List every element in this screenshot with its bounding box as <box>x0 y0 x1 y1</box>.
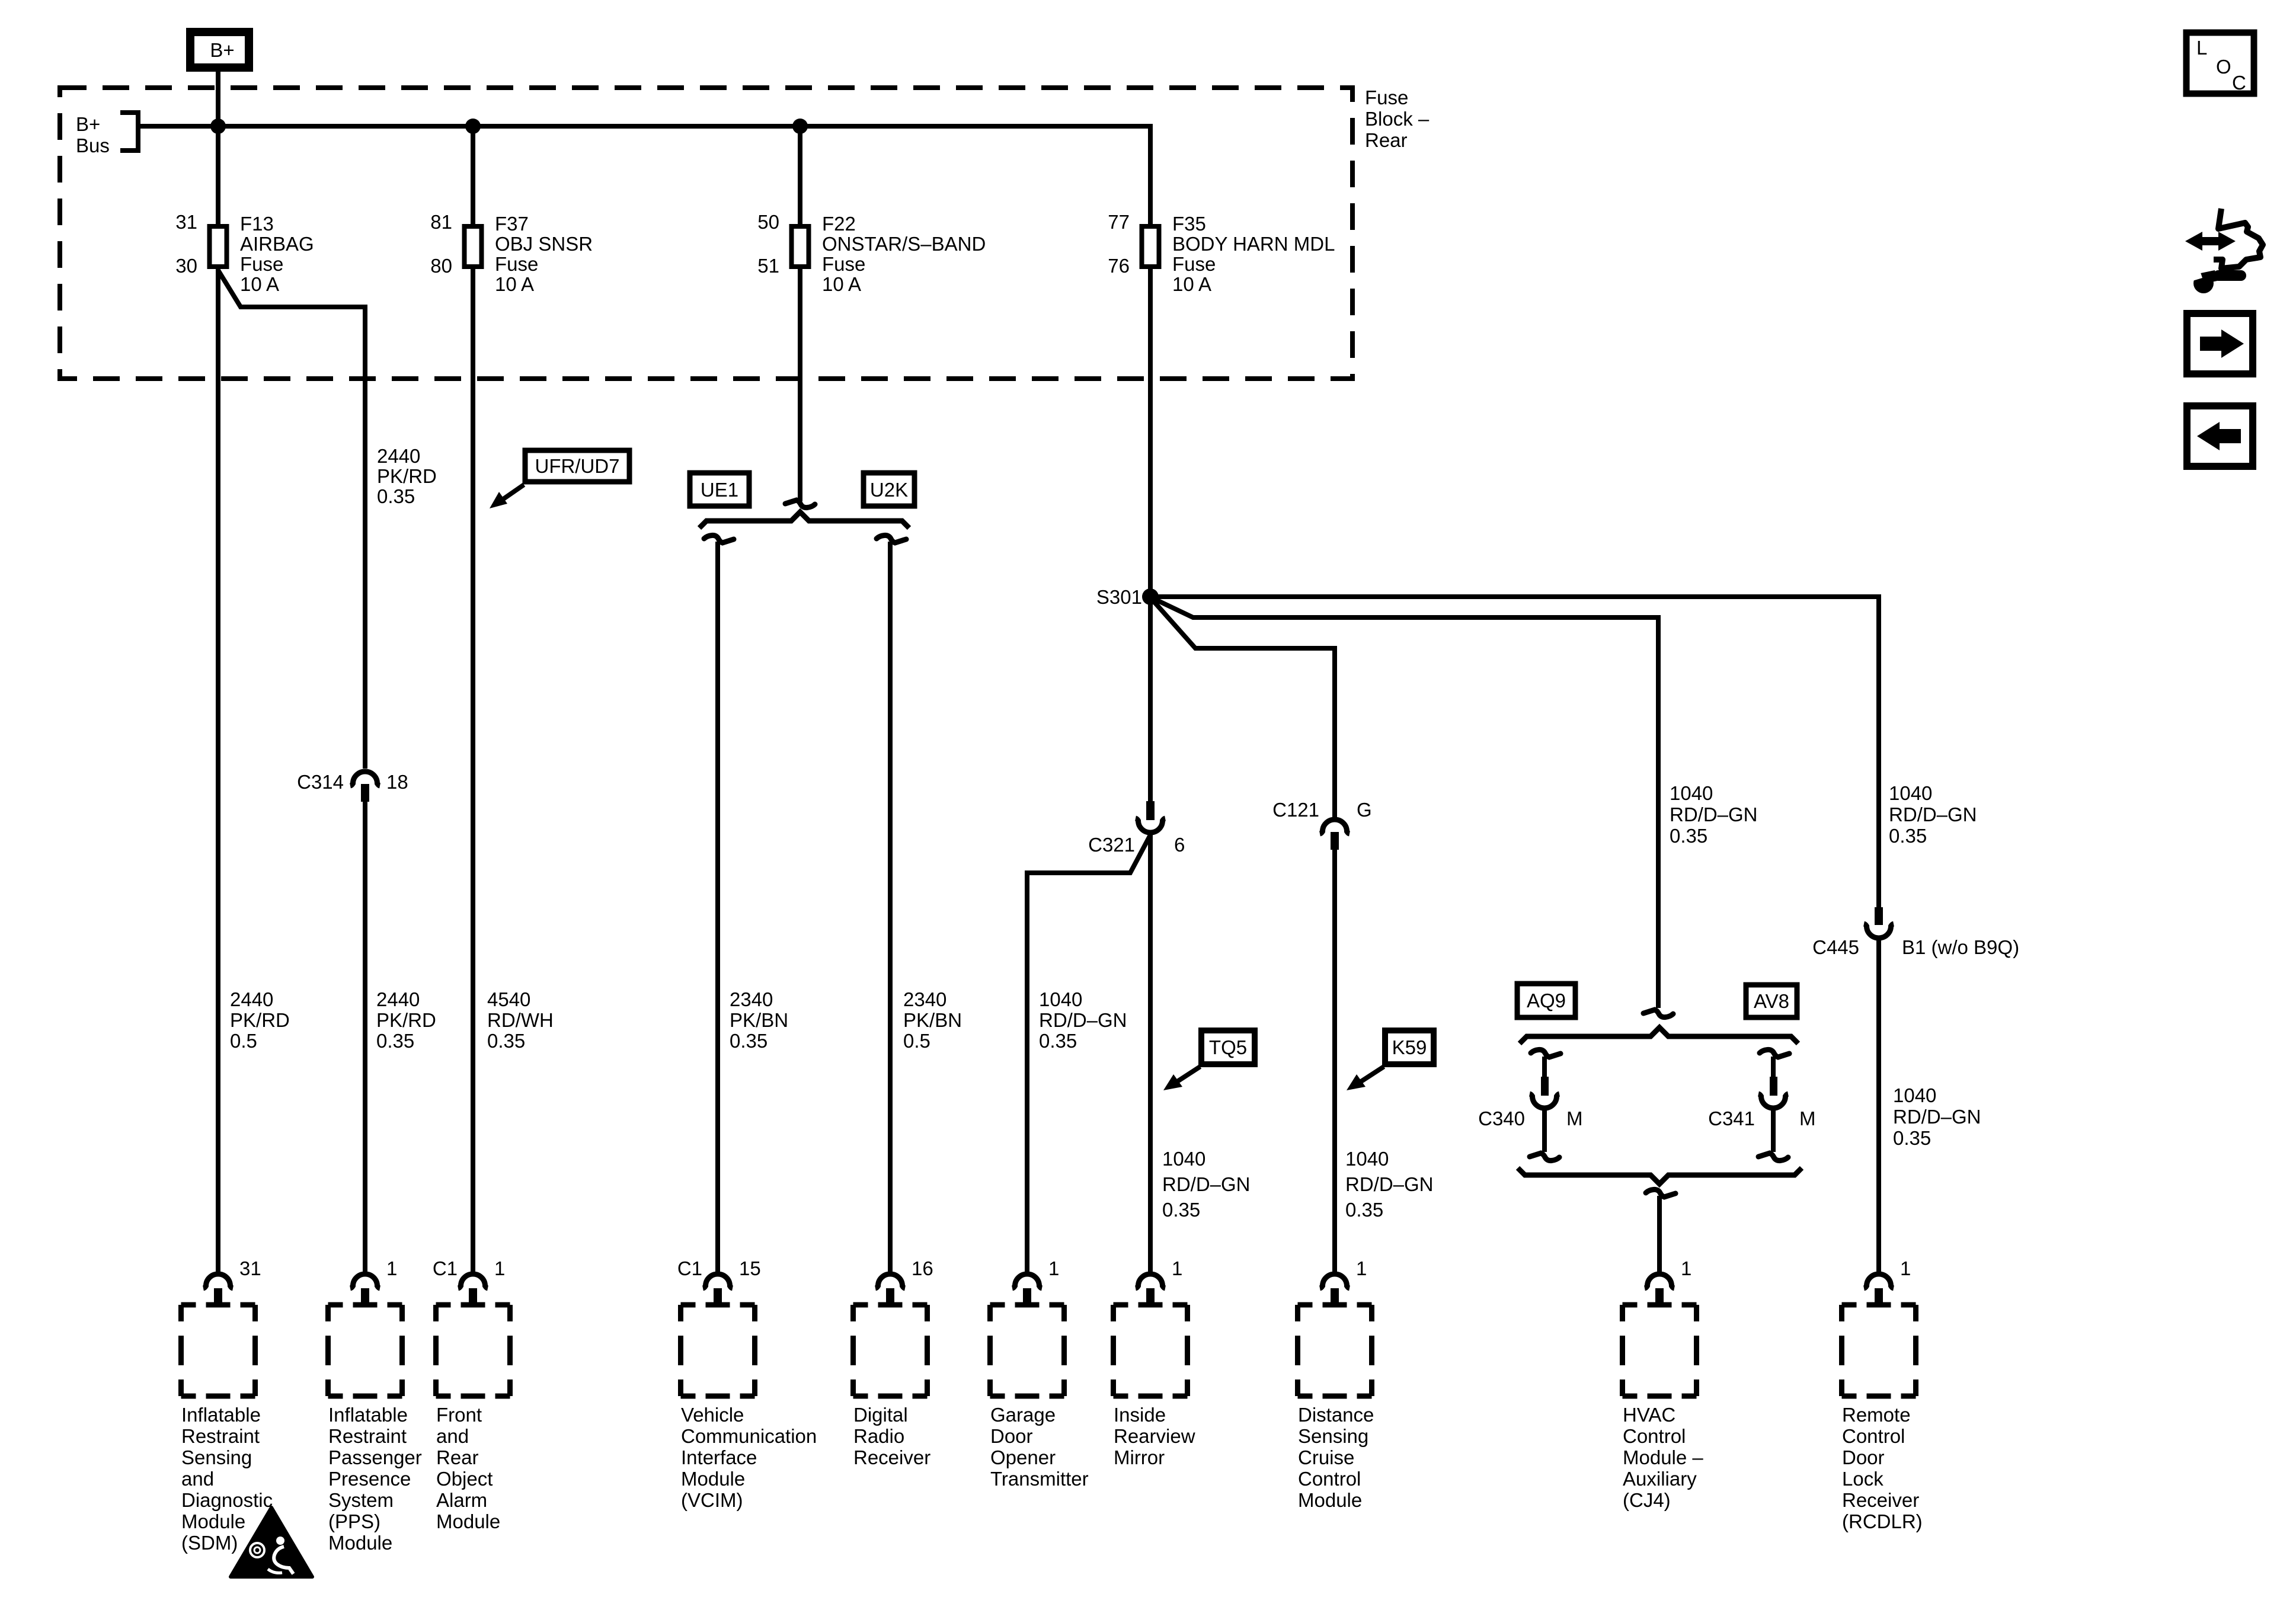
svg-text:RD/WH: RD/WH <box>487 1009 554 1031</box>
svg-text:HVAC: HVAC <box>1623 1404 1675 1426</box>
svg-text:Inside: Inside <box>1114 1404 1166 1426</box>
svg-text:Rear: Rear <box>1365 129 1408 151</box>
svg-text:Module –: Module – <box>1623 1446 1703 1468</box>
svg-text:10 A: 10 A <box>822 273 861 295</box>
squiggle UE1 branch top <box>704 535 734 543</box>
svg-text:Restraint: Restraint <box>181 1425 260 1447</box>
module VCIM label <box>681 1404 817 1511</box>
svg-text:(RCDLR): (RCDLR) <box>1842 1510 1923 1532</box>
svg-text:and: and <box>181 1468 214 1490</box>
fuse F13 <box>210 226 227 267</box>
svg-text:Module: Module <box>436 1510 500 1532</box>
svg-text:Opener: Opener <box>990 1446 1056 1468</box>
svg-text:Alarm: Alarm <box>436 1489 487 1511</box>
svg-text:UE1: UE1 <box>701 479 738 501</box>
svg-text:PK/RD: PK/RD <box>376 1009 436 1031</box>
svg-text:76: 76 <box>1108 255 1130 277</box>
module cruise box <box>1298 1305 1372 1396</box>
svg-text:2440: 2440 <box>377 445 420 467</box>
wire UE1 branch to VCIM <box>715 542 720 1273</box>
wire label 2340 PK/BN 0.35 <box>730 988 788 1052</box>
svg-text:1: 1 <box>1356 1257 1367 1279</box>
wire hvac to module <box>1657 1196 1662 1273</box>
fuse F37 pins <box>430 211 452 277</box>
wire F35 to S301 and C321 <box>1148 269 1153 801</box>
label AV8 box <box>1746 985 1797 1017</box>
svg-text:PK/BN: PK/BN <box>730 1009 788 1031</box>
svg-text:Module: Module <box>181 1510 245 1532</box>
wire bus to F37 <box>471 126 475 225</box>
svg-text:0.35: 0.35 <box>487 1030 525 1052</box>
svg-text:Inflatable: Inflatable <box>328 1404 408 1426</box>
svg-text:C1: C1 <box>677 1257 702 1279</box>
wire U2K branch to DRR <box>888 542 893 1273</box>
label K59 arrow <box>1347 1067 1384 1090</box>
module SDM box <box>181 1305 255 1396</box>
svg-text:B1 (w/o B9Q): B1 (w/o B9Q) <box>1902 936 2019 958</box>
svg-text:1040: 1040 <box>1893 1084 1936 1106</box>
wire S301 to HVAC column <box>1155 599 1658 1008</box>
svg-text:F13: F13 <box>240 213 274 235</box>
B+ bus bracket <box>120 113 138 151</box>
svg-text:Transmitter: Transmitter <box>990 1468 1089 1490</box>
svg-text:Auxiliary: Auxiliary <box>1623 1468 1697 1490</box>
svg-text:K59: K59 <box>1392 1036 1427 1058</box>
svg-text:18: 18 <box>386 771 408 793</box>
wire C121 to cruise module <box>1332 849 1337 1273</box>
fuse F37 <box>465 226 482 267</box>
wire C314 to PPS <box>363 801 367 1273</box>
connector C314 symbol <box>350 772 380 802</box>
svg-text:PK/RD: PK/RD <box>377 465 437 487</box>
module SDM label <box>181 1404 273 1554</box>
wire label 1040 RD/D-GN 0.35 rcdlr upper <box>1889 782 1977 847</box>
connector C340 labels <box>1478 1108 1582 1129</box>
connector C445 symbol <box>1864 907 1894 938</box>
fuse F22 label <box>822 213 986 295</box>
fuse block rear dashed border <box>60 88 1352 379</box>
svg-text:RD/D–GN: RD/D–GN <box>1345 1173 1434 1195</box>
wire F13 branch to PPS column <box>218 270 365 769</box>
svg-text:C314: C314 <box>297 771 344 793</box>
svg-text:G: G <box>1357 799 1372 821</box>
svg-text:15: 15 <box>739 1257 761 1279</box>
squiggle hvac wire end <box>1643 1010 1673 1017</box>
option brace hvac bottom <box>1518 1168 1802 1184</box>
svg-text:0.35: 0.35 <box>376 1030 414 1052</box>
wire bus to F22 <box>798 126 802 225</box>
node junction F22 <box>792 119 808 134</box>
svg-text:2340: 2340 <box>730 988 773 1010</box>
wire F22 down <box>798 269 802 501</box>
wire bus to F13 <box>216 126 220 225</box>
svg-text:Control: Control <box>1623 1425 1686 1447</box>
svg-text:Module: Module <box>681 1468 745 1490</box>
module PPS box <box>328 1305 402 1396</box>
wire B+ drop <box>216 72 220 126</box>
svg-text:10 A: 10 A <box>240 273 279 295</box>
svg-text:10 A: 10 A <box>495 273 534 295</box>
module PPS label <box>328 1404 422 1554</box>
svg-text:1040: 1040 <box>1345 1148 1389 1170</box>
svg-text:M: M <box>1566 1108 1583 1129</box>
label TQ5 arrow <box>1163 1067 1200 1090</box>
connector C341 symbol <box>1758 1077 1788 1108</box>
svg-text:Lock: Lock <box>1842 1468 1884 1490</box>
svg-text:Door: Door <box>990 1425 1033 1447</box>
svg-text:0.35: 0.35 <box>1039 1030 1077 1052</box>
svg-text:M: M <box>1799 1108 1816 1129</box>
svg-text:Sensing: Sensing <box>1298 1425 1368 1447</box>
svg-text:Fuse: Fuse <box>822 253 865 275</box>
squiggle C340 top <box>1531 1049 1560 1057</box>
svg-text:RD/D–GN: RD/D–GN <box>1162 1173 1251 1195</box>
svg-text:1: 1 <box>1900 1257 1911 1279</box>
module DRR box <box>853 1305 928 1396</box>
svg-text:Bus: Bus <box>76 135 110 156</box>
svg-text:O: O <box>2216 56 2231 78</box>
connector DRR pin 16 <box>875 1274 905 1306</box>
icon hand with wrench <box>2185 209 2263 293</box>
svg-text:System: System <box>328 1489 394 1511</box>
svg-text:Diagnostic: Diagnostic <box>181 1489 273 1511</box>
module DRR label <box>853 1404 930 1468</box>
svg-text:F37: F37 <box>495 213 529 235</box>
wire label 2440 PK/RD 0.35 col PPS lower <box>376 988 436 1052</box>
svg-text:0.35: 0.35 <box>1893 1127 1931 1149</box>
wire F37 to OBJ <box>471 269 475 1273</box>
svg-text:31: 31 <box>175 211 197 233</box>
wire B+ bus <box>138 124 1150 129</box>
wire label 1040 RD/D-GN 0.35 col SDM lower <box>230 988 290 1052</box>
wire label 1040 RD/D-GN 0.35 mirror <box>1162 1148 1251 1221</box>
label UFR/UD7 arrow <box>490 485 524 508</box>
connector C340 symbol <box>1530 1077 1559 1108</box>
svg-text:1040: 1040 <box>1889 782 1932 804</box>
connector C321 labels <box>1088 834 1185 856</box>
svg-text:B+: B+ <box>210 39 234 61</box>
connector VCIM pin C1-15 <box>703 1274 733 1306</box>
svg-text:C321: C321 <box>1088 834 1135 856</box>
svg-text:Distance: Distance <box>1298 1404 1374 1426</box>
connector RCDLR pin 1 <box>1864 1274 1894 1306</box>
svg-text:Interface: Interface <box>681 1446 757 1468</box>
connector garage pin 1 <box>1012 1274 1042 1306</box>
fuse block label <box>1365 87 1430 151</box>
svg-text:Garage: Garage <box>990 1404 1056 1426</box>
icon arrow left box <box>2187 406 2253 466</box>
svg-text:1: 1 <box>1681 1257 1691 1279</box>
wire C321 branch to garage column <box>1027 835 1150 1273</box>
wire bus corner to F35 <box>1148 124 1153 225</box>
svg-text:30: 30 <box>175 255 197 277</box>
wire label 1040 RD/D-GN 0.35 rcdlr lower <box>1893 1084 1981 1149</box>
module VCIM box <box>681 1305 755 1396</box>
svg-text:Vehicle: Vehicle <box>681 1404 744 1426</box>
svg-text:Digital: Digital <box>853 1404 908 1426</box>
svg-text:Cruise: Cruise <box>1298 1446 1354 1468</box>
svg-text:77: 77 <box>1108 211 1130 233</box>
module RCDLR label <box>1842 1404 1923 1532</box>
svg-text:10 A: 10 A <box>1172 273 1211 295</box>
wire label 1040 RD/D-GN 0.35 hvac <box>1670 782 1758 847</box>
svg-text:Presence: Presence <box>328 1468 411 1490</box>
svg-text:TQ5: TQ5 <box>1209 1036 1247 1058</box>
wire C340 lower <box>1542 1110 1547 1152</box>
svg-text:Receiver: Receiver <box>853 1446 930 1468</box>
module OBJ label <box>436 1404 500 1532</box>
wire label 1040 RD/D-GN 0.35 garage <box>1039 988 1127 1052</box>
wire C321 to mirror <box>1148 834 1153 1273</box>
wire S301 to cruise column <box>1153 600 1335 817</box>
svg-text:81: 81 <box>430 211 452 233</box>
wire C341 upper <box>1771 1057 1776 1077</box>
node junction F37 <box>465 119 481 134</box>
svg-text:6: 6 <box>1174 834 1185 856</box>
svg-text:Mirror: Mirror <box>1114 1446 1165 1468</box>
svg-text:2440: 2440 <box>376 988 420 1010</box>
connector PPS pin 1 <box>350 1274 380 1306</box>
svg-text:1040: 1040 <box>1670 782 1713 804</box>
svg-text:1: 1 <box>386 1257 397 1279</box>
svg-text:0.35: 0.35 <box>730 1030 768 1052</box>
svg-text:RD/D–GN: RD/D–GN <box>1889 804 1977 825</box>
svg-text:(PPS): (PPS) <box>328 1510 380 1532</box>
connector C314 labels <box>297 771 408 793</box>
connector VCIM pin labels <box>677 1257 761 1279</box>
svg-text:0.35: 0.35 <box>377 485 415 507</box>
svg-text:S301: S301 <box>1096 586 1142 608</box>
svg-text:(SDM): (SDM) <box>181 1532 238 1554</box>
option brace hvac top <box>1520 1028 1798 1044</box>
connector OBJ pin labels <box>433 1257 506 1279</box>
svg-text:0.5: 0.5 <box>903 1030 930 1052</box>
svg-text:Control: Control <box>1842 1425 1905 1447</box>
svg-text:0.35: 0.35 <box>1345 1199 1383 1221</box>
squiggle C341 top <box>1760 1049 1789 1057</box>
svg-text:UFR/UD7: UFR/UD7 <box>535 455 619 477</box>
svg-text:C445: C445 <box>1812 936 1859 958</box>
svg-text:L: L <box>2196 37 2207 59</box>
connector cruise pin 1 <box>1320 1274 1350 1306</box>
squiggle F22 end <box>785 500 815 508</box>
svg-text:Communication: Communication <box>681 1425 817 1447</box>
svg-text:C340: C340 <box>1478 1108 1525 1129</box>
icon LOC box <box>2186 33 2254 94</box>
svg-text:2440: 2440 <box>230 988 273 1010</box>
svg-text:1: 1 <box>494 1257 505 1279</box>
svg-text:Door: Door <box>1842 1446 1885 1468</box>
svg-text:Module: Module <box>328 1532 392 1554</box>
svg-text:Receiver: Receiver <box>1842 1489 1919 1511</box>
svg-text:C1: C1 <box>433 1257 458 1279</box>
wire C340 upper <box>1542 1057 1547 1077</box>
svg-text:51: 51 <box>757 255 779 277</box>
connector C445 labels <box>1812 936 2019 958</box>
svg-text:C121: C121 <box>1272 799 1319 821</box>
splice S301 <box>1142 588 1159 605</box>
fuse F22 <box>792 226 809 267</box>
svg-text:RD/D–GN: RD/D–GN <box>1039 1009 1127 1031</box>
svg-text:(CJ4): (CJ4) <box>1623 1489 1671 1511</box>
wire label 4540 RD/WH 0.35 col OBJ lower <box>487 988 554 1052</box>
svg-text:Fuse: Fuse <box>495 253 538 275</box>
connector hvac pin 1 <box>1645 1274 1674 1306</box>
label TQ5 box <box>1201 1030 1255 1064</box>
module hvac box <box>1623 1305 1697 1396</box>
label K59 box <box>1385 1030 1434 1064</box>
wire F13 to SDM <box>216 269 220 1273</box>
svg-text:Passenger: Passenger <box>328 1446 422 1468</box>
svg-text:AV8: AV8 <box>1754 990 1789 1012</box>
squiggle C341 bottom <box>1758 1153 1788 1161</box>
squiggle hvac lower top <box>1646 1189 1675 1197</box>
svg-text:PK/BN: PK/BN <box>903 1009 962 1031</box>
svg-text:Object: Object <box>436 1468 493 1490</box>
connector OBJ pin C1-1 <box>458 1274 488 1306</box>
connector C121 symbol <box>1320 820 1350 850</box>
svg-text:0.5: 0.5 <box>230 1030 257 1052</box>
svg-text:1040: 1040 <box>1162 1148 1205 1170</box>
svg-text:Radio: Radio <box>853 1425 904 1447</box>
svg-text:Fuse: Fuse <box>1365 87 1408 108</box>
connector SDM pin 31 <box>203 1274 233 1306</box>
svg-text:Inflatable: Inflatable <box>181 1404 261 1426</box>
connector C321 symbol <box>1136 801 1165 833</box>
svg-text:Rear: Rear <box>436 1446 479 1468</box>
wire label 2440 PK/RD 0.35 upper <box>377 445 437 507</box>
svg-text:B+: B+ <box>76 113 100 135</box>
svg-text:2340: 2340 <box>903 988 946 1010</box>
svg-text:Module: Module <box>1298 1489 1362 1511</box>
svg-text:RD/D–GN: RD/D–GN <box>1893 1106 1981 1128</box>
airbag warning triangle <box>231 1507 312 1577</box>
svg-text:PK/RD: PK/RD <box>230 1009 290 1031</box>
label UE1 box <box>690 473 749 506</box>
module garage label <box>990 1404 1089 1490</box>
svg-text:Sensing: Sensing <box>181 1446 252 1468</box>
icon arrow right box <box>2187 313 2253 374</box>
svg-text:(VCIM): (VCIM) <box>681 1489 743 1511</box>
module OBJ box <box>436 1305 510 1396</box>
wire C445 to RCDLR <box>1876 939 1881 1273</box>
svg-text:F22: F22 <box>822 213 856 235</box>
svg-text:and: and <box>436 1425 469 1447</box>
fuse F22 pins <box>757 211 779 277</box>
svg-text:C341: C341 <box>1708 1108 1755 1129</box>
wire label 1040 RD/D-GN 0.35 cruise <box>1345 1148 1434 1221</box>
svg-text:1: 1 <box>1172 1257 1182 1279</box>
svg-text:BODY HARN MDL: BODY HARN MDL <box>1172 233 1335 255</box>
svg-text:50: 50 <box>757 211 779 233</box>
label U2K box <box>864 473 914 506</box>
svg-text:16: 16 <box>912 1257 933 1279</box>
svg-text:F35: F35 <box>1172 213 1206 235</box>
svg-text:4540: 4540 <box>487 988 530 1010</box>
squiggle U2K branch top <box>877 535 906 543</box>
svg-text:Fuse: Fuse <box>240 253 283 275</box>
svg-text:1: 1 <box>1048 1257 1059 1279</box>
connector C121 labels <box>1272 799 1372 821</box>
svg-text:U2K: U2K <box>870 479 908 501</box>
svg-text:0.35: 0.35 <box>1889 825 1927 847</box>
fuse F13 pins <box>175 211 197 277</box>
module RCDLR box <box>1842 1305 1916 1396</box>
svg-text:AIRBAG: AIRBAG <box>240 233 314 255</box>
svg-text:Remote: Remote <box>1842 1404 1911 1426</box>
fuse F37 label <box>495 213 593 295</box>
svg-text:C: C <box>2232 72 2246 94</box>
label AQ9 box <box>1517 984 1575 1017</box>
svg-text:OBJ SNSR: OBJ SNSR <box>495 233 593 255</box>
svg-text:Restraint: Restraint <box>328 1425 407 1447</box>
B+ bus text <box>76 113 110 156</box>
fuse F35 pins <box>1108 211 1130 277</box>
wire S301 to RCDLR column <box>1150 597 1879 908</box>
svg-text:31: 31 <box>239 1257 261 1279</box>
connector C341 labels <box>1708 1108 1815 1129</box>
module cruise label <box>1298 1404 1374 1511</box>
module hvac label <box>1623 1404 1703 1511</box>
svg-text:Rearview: Rearview <box>1114 1425 1195 1447</box>
option brace UE1/U2K <box>699 512 909 528</box>
module mirror box <box>1114 1305 1188 1396</box>
svg-text:RD/D–GN: RD/D–GN <box>1670 804 1758 825</box>
wire C341 lower <box>1771 1110 1776 1152</box>
svg-text:Fuse: Fuse <box>1172 253 1216 275</box>
svg-text:Front: Front <box>436 1404 482 1426</box>
svg-text:Control: Control <box>1298 1468 1361 1490</box>
svg-text:80: 80 <box>430 255 452 277</box>
connector mirror pin 1 <box>1136 1274 1165 1306</box>
fuse F35 label <box>1172 213 1335 295</box>
module garage box <box>990 1305 1064 1396</box>
node junction F13 <box>210 119 226 134</box>
svg-text:0.35: 0.35 <box>1162 1199 1200 1221</box>
module mirror label <box>1114 1404 1195 1468</box>
svg-text:ONSTAR/S–BAND: ONSTAR/S–BAND <box>822 233 986 255</box>
squiggle C340 bottom <box>1530 1153 1559 1161</box>
svg-text:AQ9: AQ9 <box>1527 990 1566 1012</box>
svg-text:Block –: Block – <box>1365 108 1430 130</box>
wire label 2340 PK/BN 0.5 <box>903 988 962 1052</box>
svg-text:0.35: 0.35 <box>1670 825 1707 847</box>
svg-text:1040: 1040 <box>1039 988 1082 1010</box>
fuse F13 label <box>240 213 314 295</box>
label UFR/UD7 box <box>525 450 629 482</box>
fuse F35 <box>1142 226 1159 267</box>
B+ power symbol box <box>190 32 249 68</box>
